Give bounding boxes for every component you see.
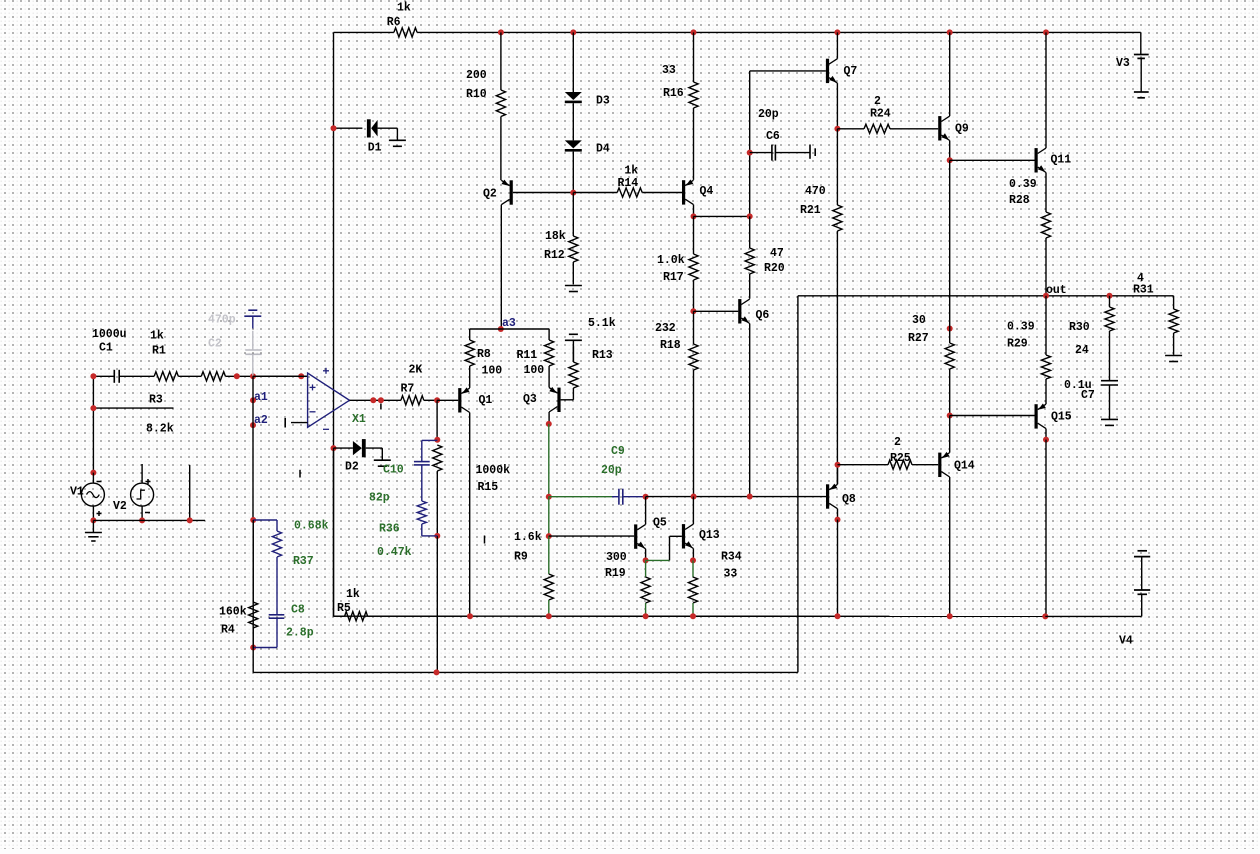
svg-text:R13: R13 xyxy=(592,349,613,362)
transistor Q14 xyxy=(938,452,950,477)
wire top rail left segment xyxy=(334,31,394,33)
label R13 ref xyxy=(592,349,613,362)
resistor R8 xyxy=(465,340,474,366)
svg-text:R15: R15 xyxy=(478,481,499,494)
svg-text:R10: R10 xyxy=(466,88,487,101)
svg-text:C10: C10 xyxy=(383,464,404,477)
label R4 value xyxy=(219,606,247,619)
svg-text:a1: a1 xyxy=(254,391,268,404)
junction bottom at R9 xyxy=(546,613,552,619)
svg-text:5.1k: 5.1k xyxy=(588,317,616,330)
svg-text:R24: R24 xyxy=(870,108,891,121)
wire Q3 base xyxy=(561,399,574,401)
svg-text:Q5: Q5 xyxy=(653,516,667,529)
svg-text:30: 30 xyxy=(912,314,926,327)
label R8 value xyxy=(482,365,503,378)
svg-text:470: 470 xyxy=(805,185,826,198)
svg-text:100: 100 xyxy=(482,365,503,378)
current marker at output xyxy=(380,404,382,410)
junction bottom at Q8 xyxy=(835,613,841,619)
wire D4 to R14 node xyxy=(572,152,574,193)
label R12 value xyxy=(545,230,566,243)
svg-text:V3: V3 xyxy=(1116,57,1130,70)
wire Q13 emitter down xyxy=(692,549,694,561)
wire V2 bottom lead xyxy=(141,506,143,520)
wire feedback horizontal xyxy=(253,671,798,673)
junction a3 xyxy=(498,326,504,332)
svg-text:R25: R25 xyxy=(890,452,911,465)
junction at Q6 emitter xyxy=(747,494,753,500)
wire D2 to ground xyxy=(381,448,383,459)
svg-text:2K: 2K xyxy=(409,364,423,377)
svg-text:18k: 18k xyxy=(545,230,566,243)
resistor R28 xyxy=(1041,212,1050,296)
wire D1 to ground xyxy=(396,128,398,140)
diode D1 xyxy=(367,119,398,137)
svg-text:R28: R28 xyxy=(1009,194,1030,207)
junction Q15 base node xyxy=(947,413,953,419)
wire R8 to Q1 xyxy=(469,366,471,388)
svg-text:R6: R6 xyxy=(387,16,401,29)
label R27 ref xyxy=(908,332,929,345)
wire Q5 base xyxy=(549,535,634,537)
svg-text:Q4: Q4 xyxy=(700,185,714,198)
junction Q5 emitter node xyxy=(643,557,649,563)
svg-text:D3: D3 xyxy=(596,95,610,108)
label V1 xyxy=(70,486,84,499)
svg-text:C1: C1 xyxy=(99,342,113,355)
label Q15 xyxy=(1051,411,1072,424)
label C10 value xyxy=(369,492,390,505)
svg-text:470p: 470p xyxy=(208,314,236,327)
svg-text:0.39: 0.39 xyxy=(1007,321,1035,334)
junction bottom at V4 xyxy=(1042,613,1048,619)
svg-text:out: out xyxy=(1046,284,1067,297)
resistor R16 xyxy=(689,32,698,180)
wire Q14 emitter up xyxy=(949,416,951,453)
svg-text:R7: R7 xyxy=(401,383,415,396)
svg-text:1000u: 1000u xyxy=(92,328,127,341)
resistor R34 xyxy=(688,560,697,616)
label Q2 xyxy=(483,187,497,200)
svg-text:R30: R30 xyxy=(1069,321,1090,334)
svg-text:R11: R11 xyxy=(517,349,538,362)
svg-text:R21: R21 xyxy=(800,204,821,217)
label C8 ref xyxy=(291,604,305,617)
label R14 value xyxy=(624,165,638,178)
junction Q4 collector node xyxy=(691,213,697,219)
svg-text:V2: V2 xyxy=(113,500,127,513)
wire a3 bracket xyxy=(470,329,549,340)
svg-text:R17: R17 xyxy=(663,271,684,284)
label R31 value xyxy=(1137,272,1144,285)
wire R7 to Q1 base xyxy=(437,399,458,401)
svg-text:20p: 20p xyxy=(758,108,779,121)
resistor R18 xyxy=(689,311,698,496)
label R3 ref xyxy=(149,394,163,407)
label C2 value xyxy=(208,314,236,327)
wire Q7 base run xyxy=(750,70,826,72)
label R6 value xyxy=(397,2,411,15)
wire R9 column mid xyxy=(548,497,550,536)
svg-text:Q7: Q7 xyxy=(844,65,858,78)
svg-text:D4: D4 xyxy=(596,143,610,156)
label R10 ref xyxy=(466,88,487,101)
svg-text:0.39: 0.39 xyxy=(1009,178,1037,191)
label C6 value xyxy=(758,108,779,121)
junction C6 left node xyxy=(747,150,753,156)
svg-text:160k: 160k xyxy=(219,606,247,619)
wire Q8 collector down xyxy=(837,509,839,520)
resistor R25 xyxy=(838,460,939,469)
label R19 ref xyxy=(605,567,626,580)
label Q7 xyxy=(844,65,858,78)
ground above C2 xyxy=(244,310,261,328)
wire V1 top lead xyxy=(92,473,94,484)
junction input c xyxy=(298,373,304,379)
ground at R31 xyxy=(1165,356,1182,362)
capacitor C9 xyxy=(549,489,646,505)
label R18 ref xyxy=(660,339,681,352)
transistor Q1 xyxy=(458,387,470,412)
svg-text:R9: R9 xyxy=(514,551,528,564)
wire Q7 collector up xyxy=(836,32,838,58)
resistor R7 xyxy=(401,396,437,405)
svg-text:33: 33 xyxy=(724,568,738,581)
wire source ground rail xyxy=(93,519,205,521)
label R7 value xyxy=(409,364,423,377)
resistor R1 xyxy=(154,372,201,381)
svg-text:V4: V4 xyxy=(1119,635,1133,648)
resistor R13 xyxy=(569,346,578,400)
label R27 value xyxy=(912,314,926,327)
resistor R37 and capacitor C8 branch xyxy=(253,520,284,648)
label R7 ref xyxy=(401,383,415,396)
svg-text:1k: 1k xyxy=(346,588,360,601)
label D1 xyxy=(368,142,382,155)
label R28 value xyxy=(1009,178,1037,191)
junction at R18 bottom xyxy=(691,494,697,500)
wire Q2 base xyxy=(513,192,573,194)
ground at D1 xyxy=(389,140,406,146)
junction C9 left xyxy=(546,494,552,500)
wire Q9 collector up xyxy=(949,32,951,116)
junction a2 xyxy=(250,422,256,428)
svg-text:R31: R31 xyxy=(1133,284,1154,297)
junction R4 bottom xyxy=(250,645,256,651)
wire R7 node down xyxy=(436,400,438,440)
junction Q13 emitter node xyxy=(690,557,696,563)
open terminal at op-amp inverting input xyxy=(285,418,307,428)
label C6 ref xyxy=(766,130,780,143)
label R1 ref xyxy=(152,345,166,358)
label R15 ref xyxy=(478,481,499,494)
junction output a xyxy=(370,397,376,403)
label X1 xyxy=(352,413,366,426)
wire input node vertical xyxy=(92,376,94,472)
label R20 value xyxy=(770,247,784,260)
junction Q8 collector node xyxy=(835,517,841,523)
junction bottom at R19 xyxy=(643,613,649,619)
label R8 ref xyxy=(477,348,491,361)
label R31 ref xyxy=(1133,284,1154,297)
transistor Q5 xyxy=(634,524,646,548)
label R14 ref xyxy=(618,177,639,190)
wire V3 feed xyxy=(1140,32,1142,54)
wire Q15 base run xyxy=(950,415,1035,417)
capacitor C7 xyxy=(1101,381,1118,420)
label Q5 xyxy=(653,516,667,529)
svg-text:20p: 20p xyxy=(601,464,622,477)
label D4 xyxy=(596,143,610,156)
junction Q5 base node xyxy=(546,533,552,539)
label V4 xyxy=(1119,635,1133,648)
label a2 xyxy=(254,414,268,427)
junction input b xyxy=(250,373,256,379)
junction D2 node xyxy=(331,445,337,451)
wire a column xyxy=(252,376,254,520)
transistor Q2 xyxy=(501,180,513,205)
wire Q13 collector up xyxy=(692,497,694,525)
label V2 xyxy=(113,500,127,513)
label R21 ref xyxy=(800,204,821,217)
label R11 value xyxy=(524,364,545,377)
voltage source V4 xyxy=(1045,551,1150,617)
svg-text:2.8p: 2.8p xyxy=(286,627,314,640)
capacitor C6 xyxy=(750,145,816,161)
svg-text:100: 100 xyxy=(524,364,545,377)
label R37 ref xyxy=(293,555,314,568)
op-amp X1 xyxy=(308,368,350,430)
resistor R31 xyxy=(1169,296,1178,355)
wire D3 top lead xyxy=(572,32,574,92)
label R24 value xyxy=(874,95,881,108)
label Q9 xyxy=(955,123,969,136)
label R34 ref xyxy=(721,551,742,564)
svg-text:1k: 1k xyxy=(397,2,411,15)
polarity marks V1 xyxy=(97,482,102,517)
svg-text:X1: X1 xyxy=(352,413,366,426)
transistor Q11 xyxy=(1035,148,1047,172)
svg-text:232: 232 xyxy=(655,322,676,335)
junction bottom at Q14 xyxy=(947,613,953,619)
wire out row xyxy=(798,295,1174,297)
label R36 ref xyxy=(379,523,400,536)
svg-text:2: 2 xyxy=(894,436,901,449)
junction top rail at Q7 xyxy=(834,29,840,35)
label R12 ref xyxy=(544,249,565,262)
label D2 xyxy=(345,461,359,474)
label R5 ref xyxy=(337,602,351,615)
resistor R30 xyxy=(1105,296,1114,381)
wire Q11 emitter down xyxy=(1045,173,1047,213)
label R13 value xyxy=(588,317,616,330)
label R16 ref xyxy=(663,87,684,100)
label D3 xyxy=(596,95,610,108)
label Q11 xyxy=(1051,154,1072,167)
wire Q9 to Q11 base xyxy=(950,159,1035,161)
capacitor C1 xyxy=(93,370,154,383)
junction R24 node xyxy=(834,126,840,132)
svg-text:C2: C2 xyxy=(208,338,222,351)
label C7 value xyxy=(1064,379,1092,392)
label R17 ref xyxy=(663,271,684,284)
voltage source V3 xyxy=(1134,55,1149,98)
wire R9 column lower xyxy=(548,536,550,574)
resistor R5 xyxy=(334,612,471,621)
junction stub bottom xyxy=(187,517,193,523)
junction top rail at R16 xyxy=(691,29,697,35)
svg-text:Q15: Q15 xyxy=(1051,411,1072,424)
resistor R14 xyxy=(573,188,682,197)
svg-text:33: 33 xyxy=(662,64,676,77)
transistor Q6 xyxy=(738,299,750,323)
label C10 ref xyxy=(383,464,404,477)
wire a column lower xyxy=(252,520,254,672)
diode D3 xyxy=(565,92,582,103)
polarity marks V2 xyxy=(145,479,151,513)
svg-text:82p: 82p xyxy=(369,492,390,505)
junction output b xyxy=(378,397,384,403)
label R21 value xyxy=(805,185,826,198)
label R20 ref xyxy=(764,262,785,275)
wire Q15 collector down xyxy=(1045,429,1047,440)
resistor R15 xyxy=(433,445,442,536)
transistor Q3 xyxy=(549,387,561,412)
label Q8 xyxy=(842,493,856,506)
svg-text:Q9: Q9 xyxy=(955,123,969,136)
svg-text:R14: R14 xyxy=(618,177,639,190)
wire Q1 collector down xyxy=(469,413,471,617)
junction top rail at Q9 xyxy=(947,29,953,35)
svg-text:R4: R4 xyxy=(221,624,235,637)
svg-text:1.6k: 1.6k xyxy=(514,531,542,544)
label R37 value xyxy=(294,520,329,533)
resistor R12 xyxy=(569,193,578,285)
transistor Q9 xyxy=(938,116,950,140)
svg-text:R20: R20 xyxy=(764,262,785,275)
wire Q7 emitter down xyxy=(836,83,838,129)
transistor Q13 xyxy=(682,524,694,548)
junction top rail at Q11 xyxy=(1043,29,1049,35)
label Q1 xyxy=(479,394,493,407)
svg-text:R34: R34 xyxy=(721,551,742,564)
resistor R29 xyxy=(1041,296,1050,404)
transistor Q4 xyxy=(682,180,694,205)
label R4 ref xyxy=(221,624,235,637)
label Q4 xyxy=(700,185,714,198)
resistor R4 xyxy=(249,520,258,648)
svg-text:D1: D1 xyxy=(368,142,382,155)
label R34 value xyxy=(724,568,738,581)
resistor R27 xyxy=(945,160,954,415)
svg-text:R18: R18 xyxy=(660,339,681,352)
junction R14 node xyxy=(570,190,576,196)
label R15 value xyxy=(476,464,511,477)
wire Q15 to bottom rail xyxy=(1045,440,1047,617)
label Q14 xyxy=(954,460,975,473)
wire V1 bottom lead xyxy=(92,506,94,520)
svg-text:R8: R8 xyxy=(477,348,491,361)
label Q3 xyxy=(523,393,537,406)
svg-text:C9: C9 xyxy=(611,445,625,458)
label R1 value xyxy=(150,330,164,343)
svg-text:1000k: 1000k xyxy=(476,464,511,477)
wire Q14 collector down xyxy=(949,477,951,616)
svg-text:a3: a3 xyxy=(502,317,516,330)
wire Q9 emitter down xyxy=(949,141,951,161)
junction D1 node xyxy=(331,125,337,131)
wire Q6 base xyxy=(693,310,738,312)
svg-text:1k: 1k xyxy=(150,330,164,343)
svg-text:47: 47 xyxy=(770,247,784,260)
svg-text:R37: R37 xyxy=(293,555,314,568)
svg-text:R19: R19 xyxy=(605,567,626,580)
svg-text:1k: 1k xyxy=(624,165,638,178)
svg-text:1.0k: 1.0k xyxy=(657,254,685,267)
wire Q11 collector up xyxy=(1045,32,1047,148)
svg-text:2: 2 xyxy=(874,95,881,108)
label V3 xyxy=(1116,57,1130,70)
label R9 value xyxy=(514,531,542,544)
transistor Q7 xyxy=(826,59,838,83)
transistor Q15 xyxy=(1035,404,1047,429)
junction Q3 emitter xyxy=(546,421,552,427)
wire R15 column down xyxy=(436,536,438,673)
svg-text:R36: R36 xyxy=(379,523,400,536)
junction a1 xyxy=(250,397,256,403)
wire Q8 collector to rail xyxy=(837,520,839,617)
junction R4 top xyxy=(250,517,256,523)
wire R9 column upper xyxy=(548,424,550,497)
wire Q6 emitter down xyxy=(749,324,751,497)
junction R3 line xyxy=(90,405,96,411)
wire Q2 collector down xyxy=(500,205,502,329)
wire Q5 emitter down xyxy=(645,549,647,561)
diode D4 xyxy=(565,140,582,151)
junction R25 node xyxy=(835,462,841,468)
junction R20 top node xyxy=(747,213,753,219)
junction bottom at R34 xyxy=(690,613,696,619)
svg-text:Q1: Q1 xyxy=(479,394,493,407)
label R29 ref xyxy=(1007,338,1028,351)
label R24 ref xyxy=(870,108,891,121)
junction R15 bottom xyxy=(434,533,440,539)
label a3 xyxy=(502,317,516,330)
svg-text:C6: C6 xyxy=(766,130,780,143)
wire Q8 base row xyxy=(646,496,826,498)
ground at R13 xyxy=(565,334,582,362)
junction out node xyxy=(1043,293,1049,299)
svg-text:200: 200 xyxy=(466,69,487,82)
resistor R24 xyxy=(837,124,938,133)
capacitor C2 ghosted xyxy=(245,331,261,376)
voltage source V2 xyxy=(131,483,154,506)
junction R15 top xyxy=(434,437,440,443)
label a1 xyxy=(254,391,268,404)
svg-text:Q2: Q2 xyxy=(483,187,497,200)
svg-text:300: 300 xyxy=(606,551,627,564)
junction V2 bottom xyxy=(139,517,145,523)
resistor R6 xyxy=(394,28,501,37)
diode D2 xyxy=(334,439,383,457)
resistor R3 zigzag xyxy=(201,372,307,381)
wire Q5 collector up xyxy=(645,497,647,525)
svg-text:Q6: Q6 xyxy=(756,309,770,322)
svg-text:R5: R5 xyxy=(337,602,351,615)
resistor R17 xyxy=(689,216,698,311)
junction Q6 base node xyxy=(690,308,696,314)
